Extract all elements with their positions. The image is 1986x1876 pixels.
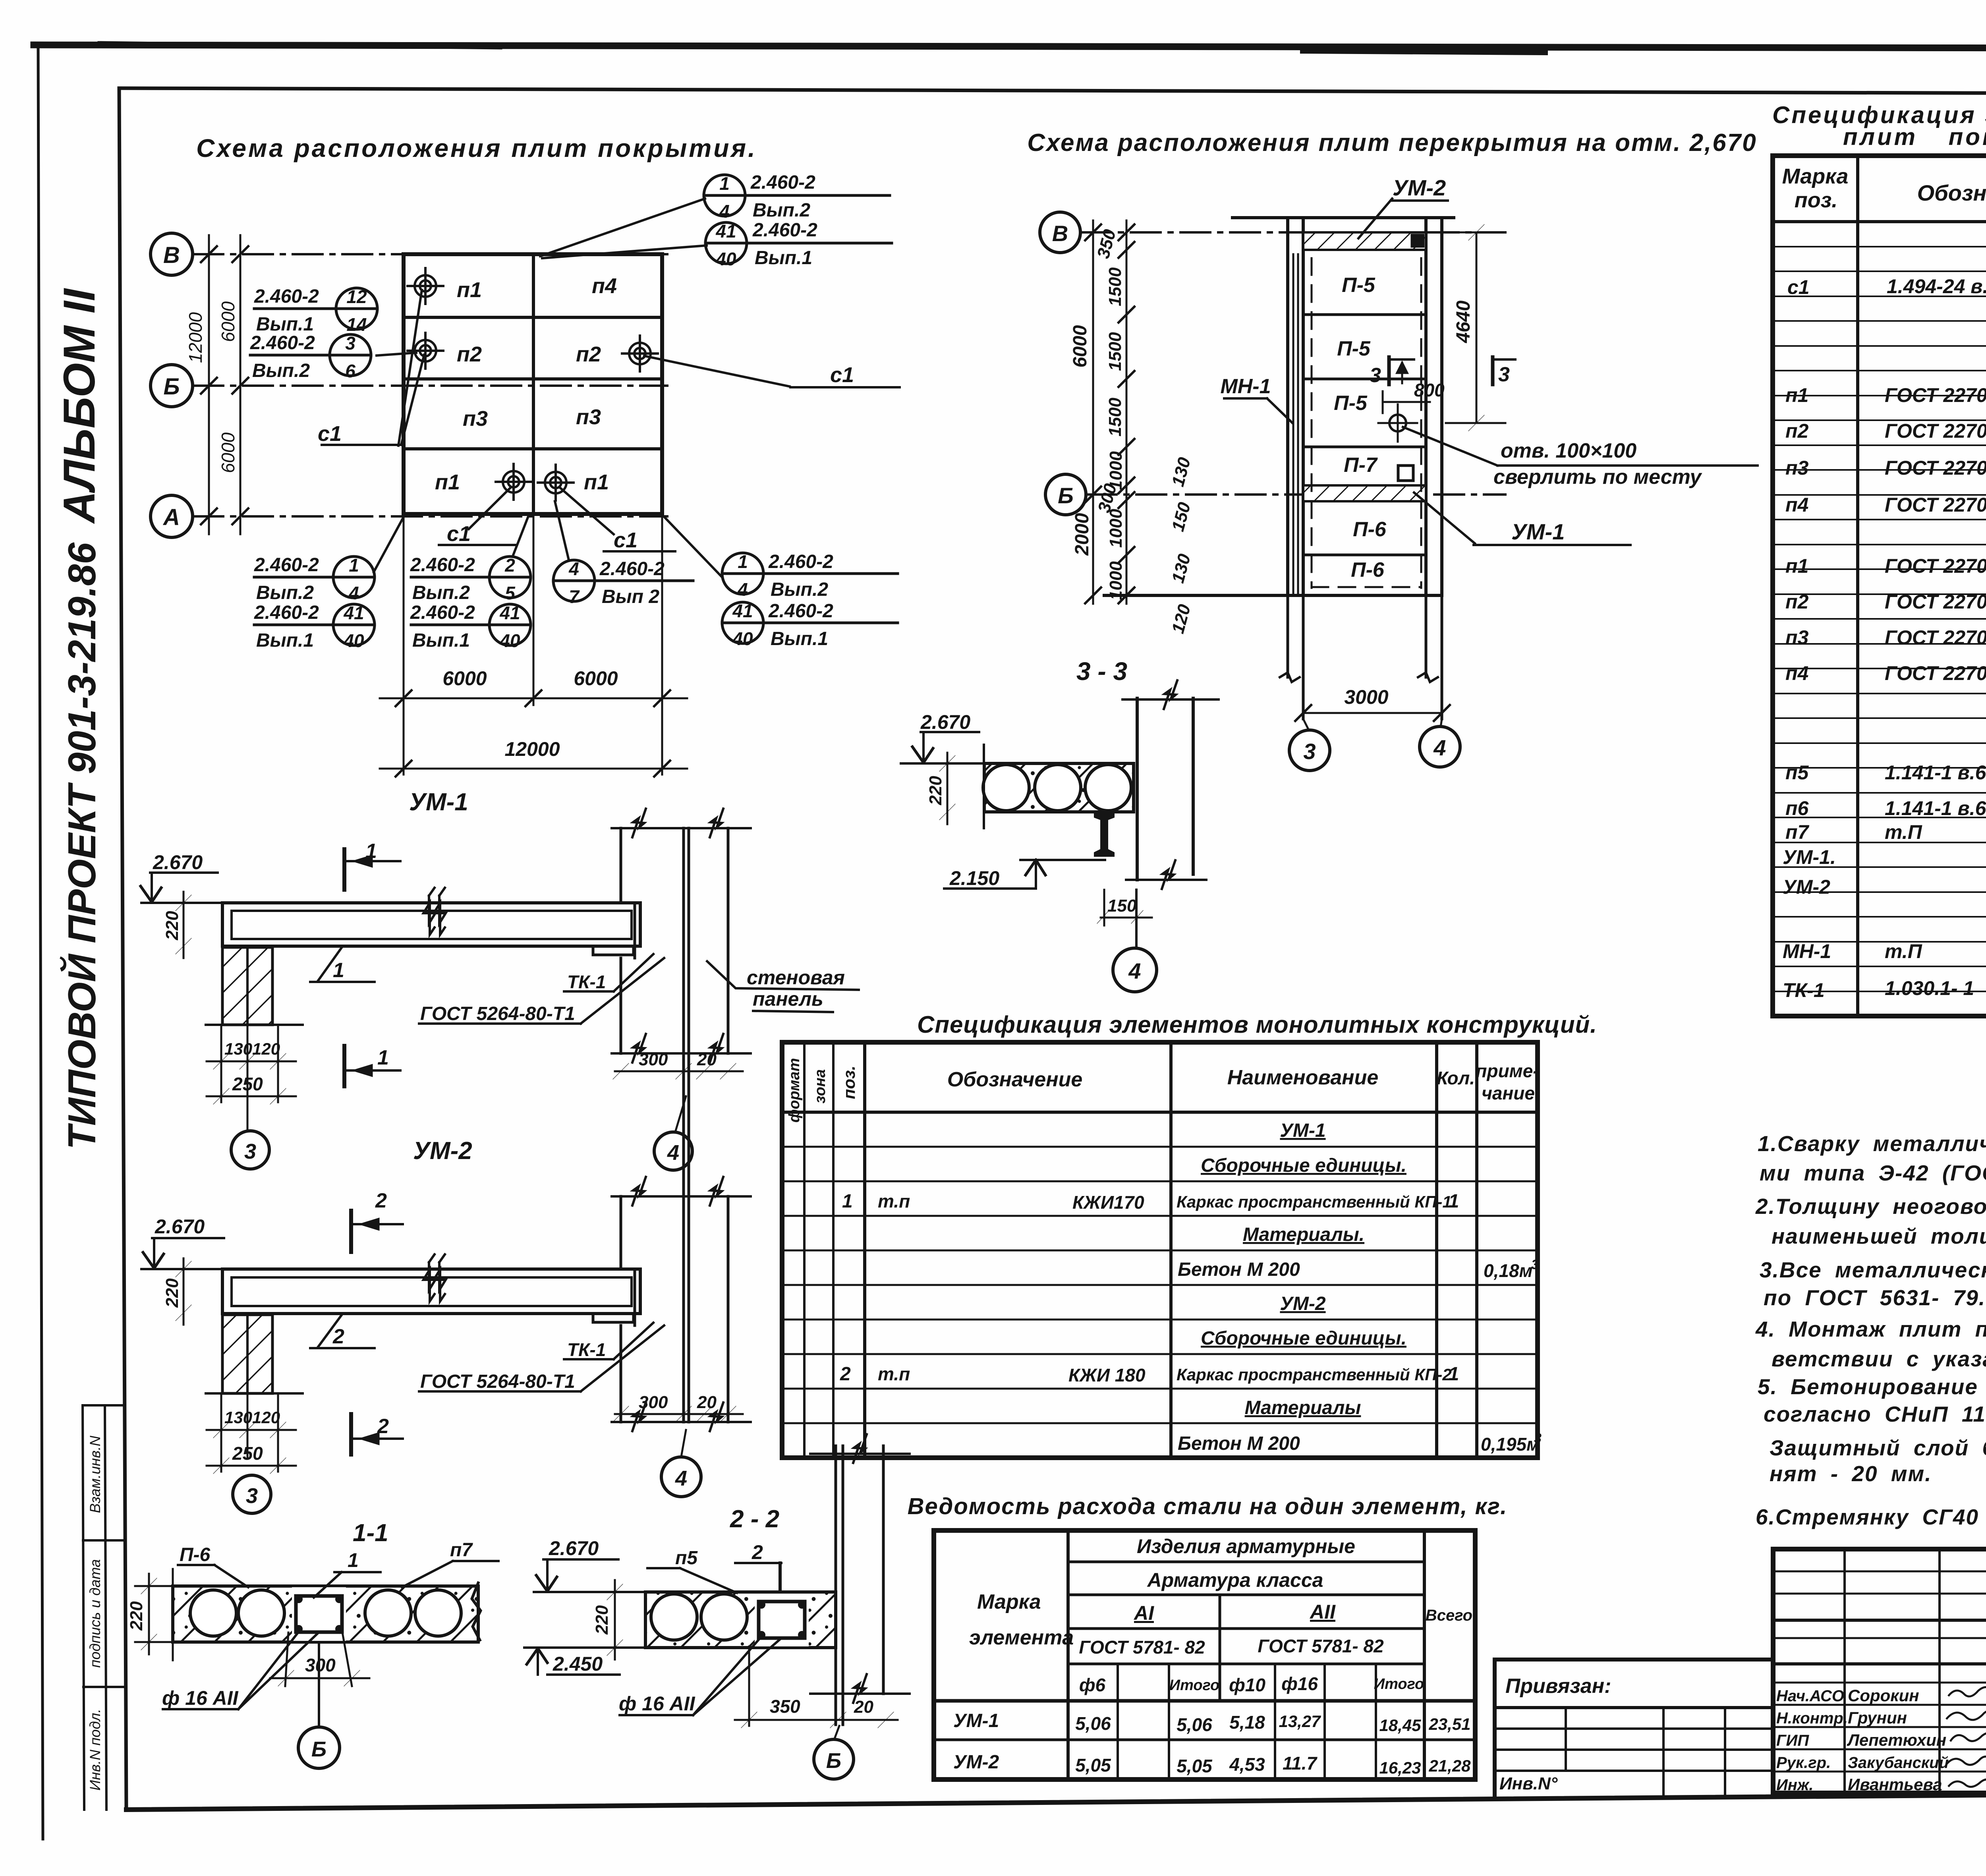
svg-text:Вып.1: Вып.1 — [412, 630, 470, 651]
svg-text:поз.: поз. — [840, 1066, 858, 1099]
svg-text:Рук.гр.: Рук.гр. — [1776, 1754, 1831, 1772]
svg-text:АII: АII — [1309, 1601, 1336, 1623]
svg-text:20: 20 — [854, 1697, 873, 1717]
svg-text:6000: 6000 — [442, 667, 487, 690]
svg-text:1: 1 — [1449, 1364, 1459, 1385]
svg-text:41: 41 — [343, 603, 364, 623]
svg-text:Всего: Всего — [1426, 1607, 1472, 1624]
svg-text:2.150: 2.150 — [949, 867, 999, 889]
svg-text:ф 16 АII: ф 16 АII — [162, 1687, 239, 1709]
svg-text:Бетон М 200: Бетон М 200 — [1178, 1259, 1300, 1280]
svg-text:АЛЬБОМ II: АЛЬБОМ II — [54, 288, 104, 524]
svg-text:4: 4 — [568, 558, 579, 579]
svg-text:5,06: 5,06 — [1075, 1713, 1111, 1734]
svg-text:4640: 4640 — [1453, 300, 1474, 343]
svg-text:Бетон М 200: Бетон М 200 — [1178, 1433, 1300, 1454]
svg-text:Взам.инв.N: Взам.инв.N — [87, 1435, 103, 1513]
svg-text:2.460-2: 2.460-2 — [250, 332, 315, 354]
svg-text:220: 220 — [162, 911, 182, 941]
svg-text:по ГОСТ 5631- 79.: по ГОСТ 5631- 79. — [1764, 1285, 1986, 1310]
svg-text:Ивантьева: Ивантьева — [1848, 1775, 1942, 1794]
svg-text:Инж.: Инж. — [1776, 1776, 1814, 1794]
svg-text:2.460-2: 2.460-2 — [410, 554, 475, 576]
svg-text:41: 41 — [732, 601, 753, 621]
svg-text:Нач.АСО: Нач.АСО — [1776, 1687, 1844, 1705]
svg-text:2.460-2: 2.460-2 — [752, 220, 817, 241]
svg-text:1.141-1 в.60: 1.141-1 в.60 — [1885, 797, 1986, 819]
svg-text:2.460-2: 2.460-2 — [254, 286, 319, 307]
svg-text:1.030.1- 1: 1.030.1- 1 — [1885, 977, 1974, 999]
svg-text:Вып.2: Вып.2 — [771, 579, 828, 600]
svg-text:Защитный слой бетона в мон: Защитный слой бетона в монолитных участк… — [1770, 1435, 1986, 1460]
svg-text:40: 40 — [715, 249, 736, 269]
svg-text:1: 1 — [842, 1191, 853, 1212]
svg-text:т.П: т.П — [1885, 821, 1922, 843]
svg-text:УМ-2: УМ-2 — [1280, 1293, 1325, 1314]
svg-text:5,05: 5,05 — [1177, 1756, 1213, 1776]
svg-text:41: 41 — [499, 603, 520, 623]
svg-text:40: 40 — [732, 628, 753, 649]
svg-text:3: 3 — [1303, 739, 1316, 764]
svg-text:Вып.1: Вып.1 — [256, 314, 314, 335]
svg-text:т.п: т.п — [878, 1364, 910, 1384]
svg-text:2: 2 — [752, 1541, 763, 1563]
svg-text:20: 20 — [697, 1050, 717, 1069]
svg-text:2000: 2000 — [1072, 513, 1093, 556]
svg-text:2: 2 — [377, 1415, 389, 1438]
svg-text:250: 250 — [232, 1074, 263, 1094]
svg-text:c1: c1 — [830, 363, 854, 387]
svg-text:4: 4 — [667, 1141, 679, 1165]
svg-text:п1: п1 — [435, 470, 460, 494]
svg-text:1.141-1 в.60: 1.141-1 в.60 — [1885, 761, 1986, 784]
svg-text:3 - 3: 3 - 3 — [1076, 657, 1127, 686]
svg-text:Инв.N подл.: Инв.N подл. — [87, 1709, 103, 1791]
svg-text:п2: п2 — [457, 342, 482, 366]
svg-text:ТК-1: ТК-1 — [1783, 979, 1825, 1001]
svg-text:5,05: 5,05 — [1075, 1755, 1111, 1776]
svg-text:Итого: Итого — [1374, 1676, 1424, 1692]
svg-text:УМ-1: УМ-1 — [1280, 1120, 1325, 1141]
svg-text:6000: 6000 — [218, 301, 238, 342]
svg-text:3: 3 — [345, 333, 355, 354]
svg-text:УМ-1: УМ-1 — [409, 788, 468, 816]
svg-text:приме-: приме- — [1476, 1061, 1539, 1081]
svg-text:Сборочные единицы.: Сборочные единицы. — [1201, 1328, 1406, 1349]
svg-text:300: 300 — [305, 1655, 336, 1675]
svg-text:Вып.1: Вып.1 — [755, 247, 812, 269]
svg-text:п4: п4 — [1785, 662, 1808, 684]
svg-text:п2: п2 — [1785, 591, 1809, 613]
svg-text:1: 1 — [719, 173, 730, 194]
svg-text:п2: п2 — [1785, 420, 1809, 442]
svg-text:ТИПОВОЙ ПРОЕКТ 901-3-219.86: ТИПОВОЙ ПРОЕКТ 901-3-219.86 — [60, 542, 104, 1150]
svg-text:20: 20 — [697, 1393, 717, 1412]
svg-text:1500: 1500 — [1105, 332, 1125, 371]
svg-text:1.Сварку металлических элеме: 1.Сварку металлических элементов произво… — [1758, 1131, 1986, 1156]
svg-text:ГОСТ 22701.1-77: ГОСТ 22701.1-77 — [1885, 420, 1986, 442]
svg-text:отв. 100×100: отв. 100×100 — [1501, 439, 1636, 462]
svg-text:3: 3 — [1534, 1431, 1542, 1446]
svg-text:220: 220 — [162, 1278, 182, 1308]
svg-text:п3: п3 — [463, 407, 488, 431]
svg-text:наименьшей толщине сваривае: наименьшей толщине свариваемых элементов… — [1772, 1224, 1986, 1248]
svg-text:2.670: 2.670 — [549, 1537, 599, 1559]
svg-text:Схема расположения плит покрыт: Схема расположения плит покрытия. — [196, 134, 757, 162]
svg-text:Марка: Марка — [977, 1590, 1041, 1613]
svg-text:Привязан:: Привязан: — [1505, 1675, 1611, 1698]
svg-text:А: А — [162, 504, 180, 530]
svg-text:Б: Б — [1058, 483, 1074, 508]
svg-text:п1: п1 — [457, 278, 482, 302]
svg-text:Инв.N°: Инв.N° — [1499, 1774, 1558, 1793]
svg-text:Грунин: Грунин — [1848, 1708, 1907, 1727]
svg-text:ГОСТ 22701.1- 77: ГОСТ 22701.1- 77 — [1885, 626, 1986, 649]
svg-text:0,18м: 0,18м — [1484, 1260, 1533, 1281]
svg-text:Вып.2: Вып.2 — [412, 582, 470, 603]
svg-text:13,27: 13,27 — [1279, 1712, 1321, 1731]
svg-text:В: В — [1052, 221, 1068, 246]
svg-text:2: 2 — [375, 1189, 387, 1212]
svg-text:1: 1 — [365, 840, 377, 863]
svg-text:150: 150 — [1107, 896, 1137, 916]
svg-text:220: 220 — [592, 1605, 612, 1635]
svg-text:Наименование: Наименование — [1227, 1066, 1379, 1089]
svg-text:Обозначение: Обозначение — [947, 1068, 1083, 1091]
svg-text:ГОСТ 22701-1-77: ГОСТ 22701-1-77 — [1885, 555, 1986, 577]
svg-text:МН-1: МН-1 — [1220, 375, 1271, 398]
svg-text:2.460-2: 2.460-2 — [750, 172, 815, 193]
svg-text:2.Толщину неоговоренных свар: 2.Толщину неоговоренных сварных швов при… — [1755, 1194, 1986, 1219]
svg-text:3: 3 — [1370, 364, 1381, 387]
svg-text:2.460-2: 2.460-2 — [254, 554, 319, 576]
svg-text:3: 3 — [244, 1140, 256, 1163]
svg-text:П-5: П-5 — [1342, 274, 1376, 297]
svg-text:УМ-1.: УМ-1. — [1783, 846, 1836, 868]
svg-text:МН-1: МН-1 — [1783, 940, 1831, 962]
svg-text:4: 4 — [1128, 958, 1141, 983]
svg-text:П-5: П-5 — [1337, 337, 1371, 360]
svg-text:Б: Б — [163, 374, 180, 400]
svg-text:Закубанский: Закубанский — [1848, 1754, 1949, 1772]
svg-text:16,23: 16,23 — [1379, 1758, 1421, 1777]
svg-text:40: 40 — [343, 630, 364, 651]
svg-text:120: 120 — [1168, 602, 1194, 636]
svg-text:220: 220 — [926, 776, 945, 806]
svg-text:Марка: Марка — [1782, 164, 1849, 188]
svg-text:2.670: 2.670 — [155, 1215, 205, 1238]
svg-text:Материалы: Материалы — [1245, 1397, 1361, 1418]
svg-text:3.Все металлические элементы: 3.Все металлические элементы окрасить кр… — [1760, 1258, 1986, 1282]
svg-text:5,06: 5,06 — [1177, 1714, 1212, 1735]
svg-text:c1: c1 — [447, 522, 471, 546]
svg-text:Вып.1: Вып.1 — [256, 630, 314, 651]
svg-text:Арматура класса: Арматура класса — [1147, 1569, 1323, 1591]
svg-text:150: 150 — [1168, 500, 1194, 533]
svg-text:ф16: ф16 — [1281, 1673, 1318, 1694]
svg-text:п4: п4 — [1785, 494, 1808, 516]
svg-text:панель: панель — [753, 988, 823, 1010]
svg-text:ГОСТ 22701.1- 77: ГОСТ 22701.1- 77 — [1885, 591, 1986, 613]
svg-text:ГОСТ 5781- 82: ГОСТ 5781- 82 — [1079, 1637, 1205, 1658]
svg-text:Каркас пространственный КП-2: Каркас пространственный КП-2 — [1177, 1365, 1452, 1384]
svg-text:130: 130 — [224, 1039, 252, 1058]
svg-text:Б: Б — [311, 1737, 326, 1761]
svg-text:согласно СНиП 11-15-76.: согласно СНиП 11-15-76. — [1764, 1402, 1986, 1426]
svg-text:УМ-2: УМ-2 — [953, 1752, 999, 1773]
svg-text:18,45: 18,45 — [1379, 1716, 1421, 1735]
svg-text:1500: 1500 — [1105, 267, 1125, 306]
svg-text:Каркас пространственный КП-1: Каркас пространственный КП-1 — [1177, 1192, 1452, 1211]
svg-text:поз.: поз. — [1795, 188, 1838, 212]
svg-text:40: 40 — [499, 630, 520, 651]
svg-text:п7: п7 — [1785, 821, 1810, 843]
svg-text:7: 7 — [569, 586, 580, 607]
svg-text:ГОСТ 5781- 82: ГОСТ 5781- 82 — [1258, 1636, 1384, 1656]
svg-text:300: 300 — [639, 1393, 668, 1412]
svg-text:11.7: 11.7 — [1283, 1753, 1318, 1774]
svg-text:т.П: т.П — [1885, 940, 1922, 962]
svg-text:зона: зона — [812, 1069, 829, 1103]
svg-text:4: 4 — [1433, 735, 1446, 760]
svg-text:3: 3 — [1531, 1257, 1539, 1272]
svg-text:П-7: П-7 — [1344, 454, 1378, 477]
svg-text:1: 1 — [348, 1549, 359, 1571]
svg-text:2: 2 — [332, 1325, 344, 1348]
svg-text:120: 120 — [252, 1039, 280, 1058]
svg-text:6.Стремянку СГ40 обрезать п: 6.Стремянку СГ40 обрезать по месту на 30… — [1756, 1505, 1986, 1529]
svg-text:Схема расположения плит перекр: Схема расположения плит перекрытия на от… — [1027, 129, 1757, 156]
svg-text:ГОСТ 5264-80-Т1: ГОСТ 5264-80-Т1 — [420, 1371, 575, 1392]
svg-text:5,18: 5,18 — [1229, 1712, 1265, 1733]
svg-text:2.670: 2.670 — [153, 851, 203, 873]
svg-text:3: 3 — [246, 1484, 258, 1508]
svg-text:12: 12 — [346, 286, 367, 307]
svg-text:300: 300 — [639, 1050, 668, 1069]
svg-text:Обозначение: Обозначение — [1917, 180, 1986, 205]
svg-text:250: 250 — [232, 1443, 263, 1464]
svg-text:Кол.: Кол. — [1437, 1068, 1475, 1088]
svg-text:п1: п1 — [1785, 384, 1808, 406]
svg-text:Вып 2: Вып 2 — [602, 586, 659, 607]
svg-text:1: 1 — [1449, 1191, 1459, 1212]
svg-text:Сорокин: Сорокин — [1848, 1686, 1919, 1705]
svg-text:1000: 1000 — [1106, 561, 1126, 600]
svg-text:Сборочные единицы.: Сборочные единицы. — [1201, 1155, 1406, 1176]
svg-text:Вып.2: Вып.2 — [256, 582, 314, 603]
svg-text:1.494-24 в.1: 1.494-24 в.1 — [1887, 275, 1986, 298]
svg-text:стеновая: стеновая — [747, 966, 845, 989]
svg-text:130: 130 — [1168, 455, 1194, 489]
svg-text:220: 220 — [127, 1601, 146, 1631]
svg-text:1: 1 — [333, 959, 344, 982]
svg-text:Вып.2: Вып.2 — [753, 200, 810, 221]
svg-text:ТК-1: ТК-1 — [567, 1339, 606, 1360]
svg-text:ф 16 АII: ф 16 АII — [619, 1692, 695, 1715]
svg-text:350: 350 — [770, 1696, 800, 1717]
svg-text:2.460-2: 2.460-2 — [254, 602, 319, 623]
svg-text:6000: 6000 — [574, 667, 618, 690]
svg-text:п7: п7 — [450, 1540, 473, 1561]
svg-text:130: 130 — [1168, 552, 1194, 585]
svg-text:4: 4 — [719, 201, 730, 222]
svg-text:Вып.1: Вып.1 — [771, 628, 828, 649]
svg-text:6: 6 — [345, 361, 355, 381]
svg-text:п3: п3 — [1785, 626, 1809, 649]
svg-text:Ведомость расхода стали на оди: Ведомость расхода стали на один элемент,… — [908, 1493, 1508, 1519]
svg-text:П-5: П-5 — [1334, 392, 1368, 415]
svg-text:3000: 3000 — [1344, 686, 1388, 708]
svg-text:2.450: 2.450 — [553, 1653, 603, 1675]
svg-text:п3: п3 — [576, 405, 601, 429]
svg-text:п5: п5 — [1785, 761, 1809, 784]
svg-text:6000: 6000 — [1070, 325, 1091, 367]
svg-text:1000: 1000 — [1106, 509, 1126, 548]
svg-text:4: 4 — [737, 579, 748, 600]
svg-text:ГИП: ГИП — [1776, 1732, 1809, 1749]
svg-text:0,195м: 0,195м — [1481, 1434, 1540, 1455]
svg-text:формат: формат — [786, 1058, 803, 1123]
svg-text:1: 1 — [738, 551, 748, 572]
svg-text:2: 2 — [504, 555, 515, 576]
svg-text:120: 120 — [252, 1408, 280, 1427]
svg-text:п4: п4 — [592, 274, 617, 298]
svg-text:п1: п1 — [1785, 555, 1808, 577]
svg-text:подпись и дата: подпись и дата — [87, 1559, 103, 1667]
svg-text:5. Бетонирование монолитных: 5. Бетонирование монолитных участков про… — [1758, 1374, 1986, 1399]
svg-text:2 - 2: 2 - 2 — [730, 1505, 779, 1533]
svg-text:130: 130 — [224, 1408, 252, 1427]
svg-text:ГОСТ 22701.1- 77: ГОСТ 22701.1- 77 — [1885, 494, 1986, 516]
svg-text:21,28: 21,28 — [1428, 1756, 1471, 1775]
svg-text:ГОСТ 5264-80-Т1: ГОСТ 5264-80-Т1 — [420, 1003, 575, 1024]
svg-text:ГОСТ 22701.1- 77: ГОСТ 22701.1- 77 — [1885, 662, 1986, 684]
svg-text:АI: АI — [1133, 1602, 1154, 1624]
svg-text:12000: 12000 — [504, 738, 560, 760]
svg-text:2.460-2: 2.460-2 — [599, 558, 665, 580]
svg-text:КЖИ 180: КЖИ 180 — [1068, 1365, 1146, 1385]
svg-text:ГОСТ 22701.1- 77: ГОСТ 22701.1- 77 — [1885, 384, 1986, 406]
svg-text:12000: 12000 — [185, 312, 206, 363]
svg-text:т.п: т.п — [878, 1191, 910, 1211]
svg-text:6000: 6000 — [218, 432, 238, 473]
svg-text:23,51: 23,51 — [1428, 1715, 1470, 1733]
svg-text:2.460-2: 2.460-2 — [768, 601, 833, 622]
svg-text:5: 5 — [505, 583, 516, 603]
svg-text:Лепетюхин: Лепетюхин — [1847, 1731, 1946, 1749]
svg-text:4,53: 4,53 — [1229, 1754, 1265, 1775]
svg-text:УМ-2: УМ-2 — [1393, 175, 1446, 200]
svg-text:1: 1 — [377, 1046, 389, 1069]
svg-text:УМ-2: УМ-2 — [413, 1137, 472, 1165]
svg-text:с1: с1 — [1787, 276, 1810, 298]
svg-text:2.460-2: 2.460-2 — [410, 602, 475, 623]
svg-text:800: 800 — [1414, 380, 1445, 400]
svg-text:П-6: П-6 — [180, 1544, 211, 1565]
svg-text:сверлить по месту: сверлить по месту — [1493, 466, 1703, 489]
svg-text:ветствии с указаниями ГОС: ветствии с указаниями ГОСТ 22701. Л-77 и… — [1772, 1347, 1986, 1371]
svg-text:Изделия арматурные: Изделия арматурные — [1137, 1535, 1355, 1557]
svg-text:41: 41 — [715, 221, 736, 242]
svg-text:1500: 1500 — [1105, 398, 1125, 437]
svg-text:УМ-2: УМ-2 — [1783, 876, 1830, 898]
svg-text:ф6: ф6 — [1079, 1675, 1106, 1695]
svg-text:п2: п2 — [576, 342, 601, 366]
svg-text:Б: Б — [826, 1749, 841, 1773]
svg-text:Материалы.: Материалы. — [1243, 1224, 1364, 1245]
svg-text:Вып.2: Вып.2 — [252, 360, 310, 381]
svg-text:п3: п3 — [1785, 457, 1809, 479]
svg-text:ми типа Э-42 (ГОСТ 9467- 75: ми типа Э-42 (ГОСТ 9467- 75). — [1760, 1161, 1986, 1185]
svg-text:П-6: П-6 — [1351, 558, 1385, 582]
svg-text:2.460-2: 2.460-2 — [768, 551, 833, 572]
svg-text:4: 4 — [348, 583, 359, 603]
svg-text:ГОСТ 22701.1- 77: ГОСТ 22701.1- 77 — [1885, 457, 1986, 479]
svg-text:п6: п6 — [1785, 797, 1809, 819]
svg-text:П-6: П-6 — [1353, 518, 1387, 541]
svg-text:плит покрытия и перекрытия: плит покрытия и перекрытия. — [1843, 124, 1986, 150]
svg-text:4: 4 — [675, 1466, 687, 1490]
svg-text:ТК-1: ТК-1 — [567, 972, 606, 992]
svg-text:2.670: 2.670 — [920, 711, 970, 733]
svg-text:Спецификация элементов монол: Спецификация элементов монолитных констр… — [917, 1011, 1597, 1038]
svg-text:Итого: Итого — [1169, 1677, 1219, 1694]
svg-text:3: 3 — [1498, 363, 1510, 386]
svg-text:чание: чание — [1482, 1083, 1535, 1103]
svg-text:c1: c1 — [614, 528, 638, 552]
svg-text:4. Монтаж плит покрытия и: 4. Монтаж плит покрытия и перекрытия Все… — [1755, 1317, 1986, 1341]
svg-text:п1: п1 — [584, 470, 609, 494]
svg-text:нят - 20 мм.: нят - 20 мм. — [1770, 1461, 1932, 1486]
svg-text:п5: п5 — [675, 1548, 698, 1569]
svg-text:УМ-1: УМ-1 — [953, 1710, 999, 1731]
svg-text:элемента: элемента — [969, 1626, 1074, 1649]
svg-text:14: 14 — [346, 314, 367, 335]
svg-text:c1: c1 — [318, 422, 342, 446]
svg-text:Н.контр.: Н.контр. — [1776, 1710, 1848, 1727]
svg-text:1-1: 1-1 — [353, 1519, 388, 1547]
svg-text:В: В — [163, 242, 180, 268]
svg-text:УМ-1: УМ-1 — [1511, 519, 1565, 544]
svg-text:ф10: ф10 — [1229, 1675, 1265, 1695]
svg-text:1: 1 — [349, 555, 359, 576]
svg-text:КЖИ170: КЖИ170 — [1072, 1192, 1144, 1213]
svg-text:2: 2 — [840, 1364, 851, 1385]
